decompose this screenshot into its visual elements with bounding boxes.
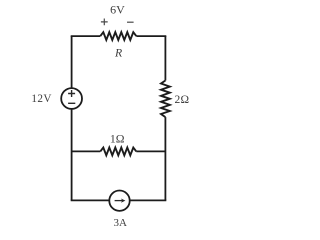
plus sign inside source bbox=[68, 90, 75, 97]
wire right upper segment bbox=[164, 36, 166, 80]
wire left lower segment bbox=[71, 109, 73, 200]
wire middle left segment bbox=[72, 150, 101, 152]
svg-text:1Ω: 1Ω bbox=[110, 131, 125, 145]
svg-text:2Ω: 2Ω bbox=[175, 94, 190, 106]
wire right lower segment bbox=[164, 117, 166, 200]
polarity plus (top resistor) bbox=[101, 19, 108, 26]
wire left upper segment bbox=[71, 36, 73, 88]
wire top-right segment bbox=[136, 35, 165, 38]
svg-text:R: R bbox=[114, 46, 122, 59]
arrow inside current source bbox=[115, 200, 123, 202]
resistor 2ohm bbox=[161, 81, 170, 118]
resistor R bbox=[100, 32, 136, 40]
svg-text:12V: 12V bbox=[31, 93, 51, 105]
svg-text:6V: 6V bbox=[110, 3, 125, 17]
minus sign inside source bbox=[68, 102, 75, 104]
svg-text:3A: 3A bbox=[113, 217, 127, 229]
wire top-left segment bbox=[72, 35, 101, 38]
resistor 1ohm bbox=[100, 148, 136, 156]
wire bottom right segment bbox=[130, 199, 166, 202]
polarity minus (top resistor) bbox=[127, 21, 134, 23]
current source I1 3A bbox=[109, 191, 129, 211]
voltage source V1 12V bbox=[61, 88, 82, 109]
wire middle right segment bbox=[136, 150, 165, 152]
wire bottom left segment bbox=[72, 199, 110, 202]
